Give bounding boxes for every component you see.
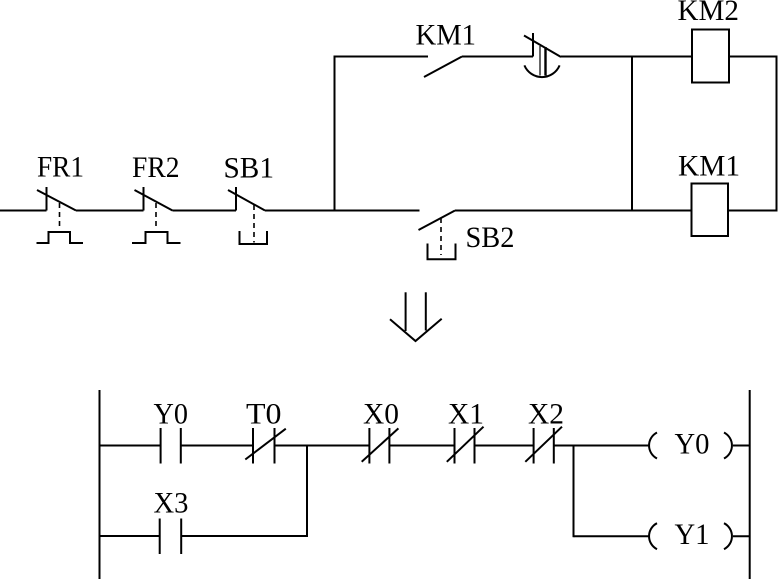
contact NC X1 — [447, 427, 484, 464]
svg-text:Y0: Y0 — [675, 428, 710, 461]
svg-text:KM2: KM2 — [678, 0, 740, 27]
ladder left rail — [99, 390, 101, 579]
svg-text:KM1: KM1 — [416, 19, 477, 52]
svg-text:KM1: KM1 — [678, 150, 740, 183]
wire: KM1 coil to right rail — [728, 210, 777, 212]
wire: X2 to Y0 coil — [554, 445, 649, 447]
wire: right junction vertical — [631, 56, 633, 212]
thermal overload contact FR1 — [37, 187, 84, 243]
thermal overload contact FR2 — [132, 187, 181, 243]
wire: between FR1 and FR2 — [76, 210, 144, 212]
svg-text:FR1: FR1 — [37, 151, 84, 184]
contact NO KM1 — [424, 57, 462, 78]
wire: Y1 coil to right rail — [733, 535, 750, 537]
contact NC X2 — [525, 427, 562, 464]
wire: branch top to KM1 contact — [335, 56, 429, 58]
svg-text:X3: X3 — [154, 487, 189, 520]
svg-text:Y0: Y0 — [154, 397, 189, 430]
wire: Y0 coil to right rail — [733, 445, 750, 447]
coil KM1 — [692, 184, 729, 237]
svg-text:SB1: SB1 — [224, 152, 275, 185]
wire: Y1 branch horizontal — [574, 535, 649, 537]
coil Y1 — [649, 523, 732, 549]
coil KM2 — [692, 30, 729, 83]
svg-text:X1: X1 — [448, 397, 484, 430]
interlock NC contact with operator — [524, 33, 561, 77]
wire: parallel branch vertical (X3 up to rung1) — [306, 445, 308, 538]
wire: T0 to X0 — [275, 445, 370, 447]
contact NC T0 — [245, 428, 285, 464]
wire: between SB1 and SB2 — [265, 210, 420, 212]
svg-text:X2: X2 — [528, 397, 564, 430]
wire: right rail of control circuit — [776, 56, 778, 212]
wire: Y0 to T0 — [181, 445, 253, 447]
pushbutton NO SB2 — [419, 211, 456, 260]
svg-text:X0: X0 — [363, 397, 399, 430]
wire: X3 to junction — [181, 535, 307, 537]
wire: rung2 left rail to X3 contact — [100, 535, 160, 537]
coil Y0 — [649, 433, 732, 459]
wire: Y1 branch vertical — [573, 445, 575, 538]
pushbutton NC SB1 — [228, 187, 267, 244]
svg-text:FR2: FR2 — [132, 151, 180, 184]
wire: rung1 left rail to Y0 contact — [100, 445, 161, 447]
contact NC X0 — [362, 428, 399, 464]
svg-text:SB2: SB2 — [466, 221, 515, 254]
wire: X1 to X2 — [475, 445, 534, 447]
wire: between FR2 and SB1 — [173, 210, 237, 212]
svg-text:Y1: Y1 — [675, 518, 710, 551]
wire: KM1 contact to interlock contact — [462, 56, 533, 58]
conversion arrow (double shaft) — [390, 292, 442, 341]
svg-text:T0: T0 — [246, 397, 282, 430]
wire: left vertical of self-hold branch — [334, 56, 336, 212]
wire: between SB2 and KM1 coil — [455, 210, 692, 212]
wire: X0 to X1 — [389, 445, 454, 447]
ladder right rail — [749, 390, 751, 579]
wire: interlock to KM2 coil — [561, 56, 692, 58]
wire: KM2 coil to right rail — [729, 56, 777, 58]
contact NO X3 — [160, 519, 182, 555]
wire: main rung left segment — [0, 210, 47, 212]
contact NO Y0 — [161, 428, 181, 464]
